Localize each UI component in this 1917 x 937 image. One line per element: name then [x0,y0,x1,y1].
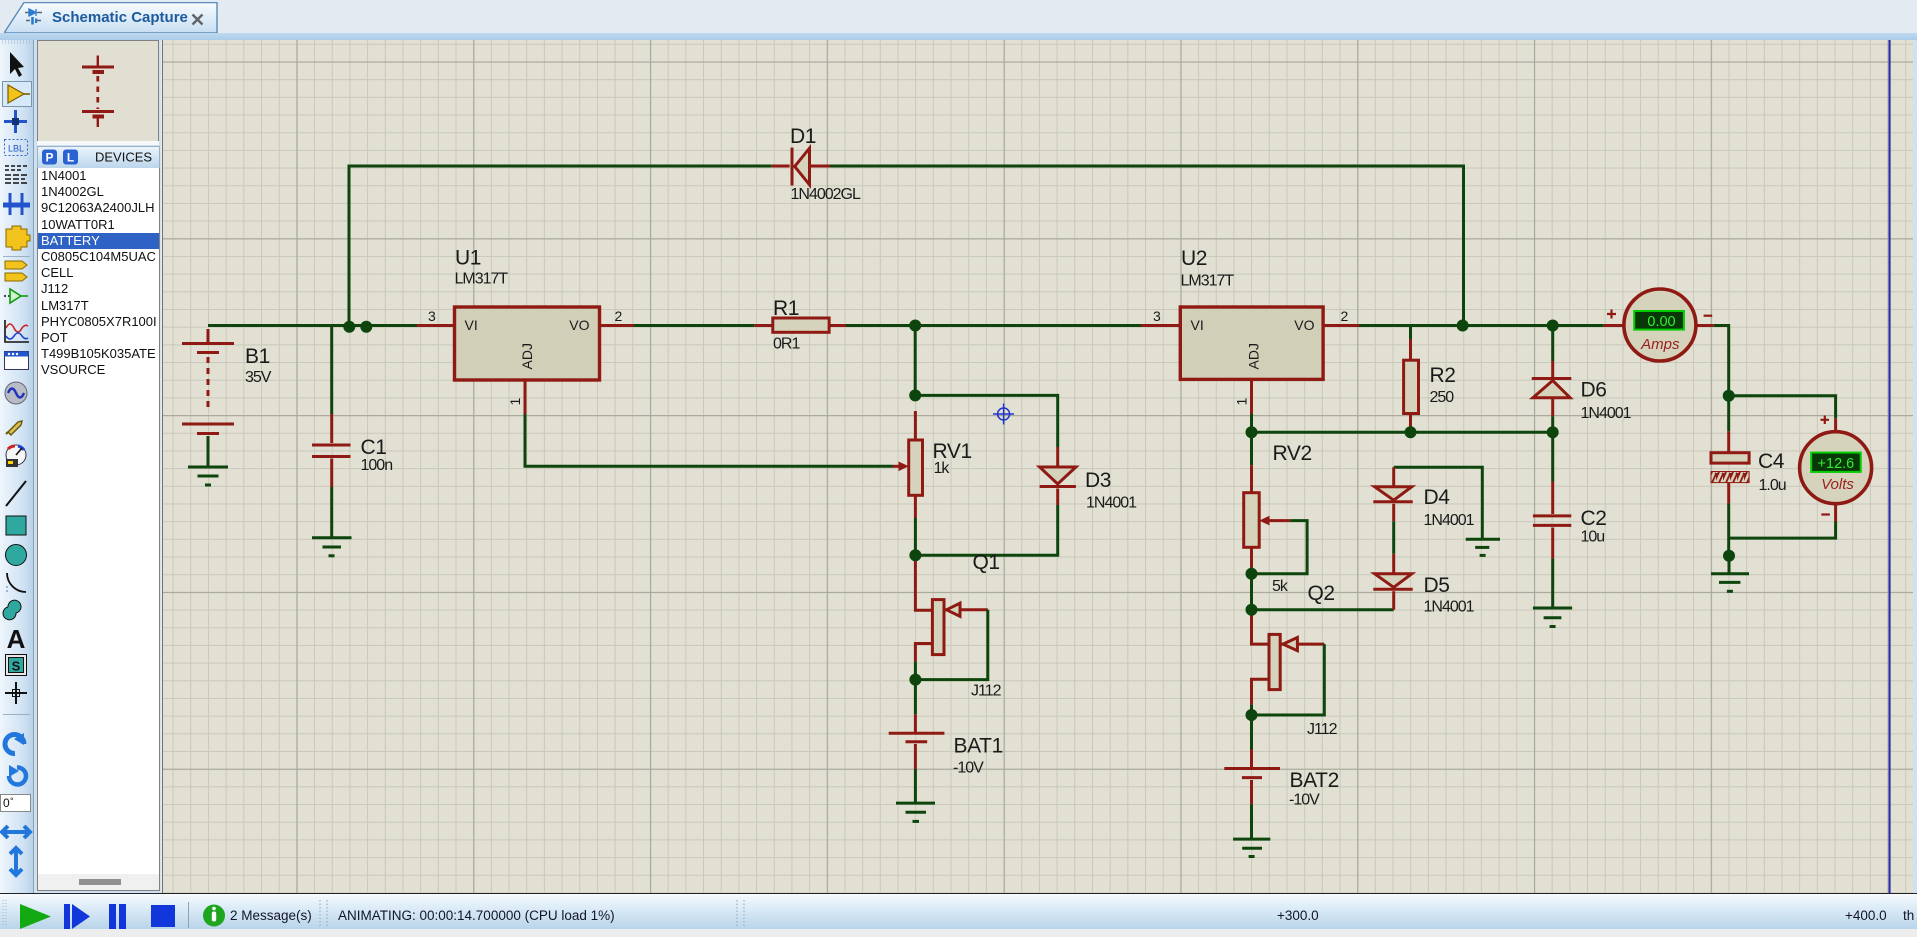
2d box tool [6,516,26,535]
transistor Q1 J112 (JFET) [915,556,987,680]
svg-text:D1: D1 [790,125,816,148]
2d arc tool [7,573,26,592]
svg-text:3: 3 [428,308,436,324]
svg-text:C4: C4 [1758,450,1785,473]
rotate ccw button [9,767,26,784]
svg-text:1N4002GL: 1N4002GL [791,186,861,203]
svg-text:2: 2 [1341,308,1349,324]
junction RV1 top node [909,389,921,401]
svg-text:-10V: -10V [1289,792,1320,809]
divider [3,714,30,716]
bus tool [10,193,22,203]
stop button [151,905,175,927]
battery BAT2 -10V [1224,715,1280,839]
junction RV1 bottom node [909,549,921,561]
junction at B1/D1 node [343,321,355,333]
ground (output) [1711,574,1749,592]
svg-text:DEVICES: DEVICES [95,150,152,165]
play button [20,904,51,929]
svg-text:250: 250 [1430,389,1455,406]
wire: stem to ground [1728,556,1731,574]
step button [64,904,70,929]
resistor R1 0R1 [754,318,846,332]
junction rail to D6 [1547,320,1559,332]
tab close X [191,13,204,31]
svg-text:D5: D5 [1424,574,1450,597]
wire: rail drop to RV1 node [914,326,917,396]
svg-text:1: 1 [507,398,523,406]
svg-text:35V: 35V [245,369,272,386]
svg-text:S: S [12,659,21,674]
diode D5 1N4001 [1373,554,1412,610]
svg-text:0.00: 0.00 [1647,314,1675,330]
wire: U2 VO to ammeter [1359,324,1604,327]
svg-text:Volts: Volts [1821,476,1854,493]
junction Q2 drain node [1246,604,1258,616]
wire: RV2 node down [1250,574,1253,610]
2d closed path tool [3,600,21,620]
ground (B1) [188,467,228,485]
svg-text:P: P [45,151,53,165]
svg-text:+12.6: +12.6 [1818,456,1855,472]
svg-text:VI: VI [1191,317,1204,333]
svg-text:0: 0 [3,796,10,810]
svg-text:B1: B1 [245,345,270,368]
wire: D1 right span and riser to rail [830,166,1464,326]
junction RV2 bottom node [1246,568,1258,580]
svg-text:R2: R2 [1430,364,1456,387]
svg-text:L: L [67,151,74,165]
voltmeter [1800,416,1872,522]
rotation angle box [1,795,31,812]
svg-text:BAT1: BAT1 [954,734,1003,757]
terminal tool [5,261,27,269]
dotted separators [320,900,327,928]
junction U2 ADJ node [1246,426,1258,438]
svg-text:ADJ: ADJ [519,343,535,369]
wire: D1 left riser [349,166,772,327]
junction rail to D1 return [1457,320,1469,332]
svg-text:5k: 5k [1272,578,1289,595]
svg-text:D4: D4 [1424,486,1451,509]
text script tool [5,166,28,183]
tab icon (schematic glyph) [25,8,42,31]
svg-text:1N4001: 1N4001 [1581,405,1632,422]
svg-text:1N4001: 1N4001 [1424,512,1475,529]
junction D6/C2 node [1547,426,1559,438]
2d circle tool [6,545,27,566]
svg-text:J112: J112 [971,683,1002,700]
wire: C1 branch [330,326,333,415]
generator tool [5,382,27,404]
resistor R2 250 [1404,326,1419,433]
svg-text:C1: C1 [361,436,387,459]
graph tool [5,320,29,342]
device pin tool [4,295,10,297]
instruments tool [6,445,26,465]
svg-text:100n: 100n [361,457,393,474]
svg-text:R1: R1 [773,297,799,320]
left toolbar [0,40,34,893]
wire: node to voltmeter top [1729,396,1836,419]
svg-text:ADJ: ADJ [1246,343,1262,369]
svg-text:1N4001: 1N4001 [1424,599,1475,616]
potentiometer RV2 5k [1244,432,1307,574]
wire: U1 VO to R1 [634,324,754,327]
subcircuit tool [6,226,30,250]
wire: D4 top to ground [1394,467,1483,539]
svg-text:Q2: Q2 [1308,582,1335,605]
ground (BAT2) [1233,839,1270,856]
junction R2 bottom node [1405,426,1417,438]
diode D1 1N4002GL [772,148,830,186]
junction Q2 source node [1246,709,1258,721]
junction rail to RV1 branch [909,320,921,332]
svg-text:0R1: 0R1 [773,336,800,353]
h-mirror button [2,826,30,838]
toolbar grip [2,41,31,43]
svg-text:VI: VI [465,317,478,333]
svg-text:U2: U2 [1181,247,1207,270]
ammeter [1604,289,1714,361]
tape recorder tool [5,352,29,370]
capacitor C2 10u [1533,432,1571,608]
regulator U2 LM317T [1141,307,1359,414]
wire: U2 ADJ node row [1252,414,1553,432]
svg-text:D3: D3 [1085,469,1111,492]
sheet border [1889,40,1891,893]
wire: main rail B1 to U1 [208,324,417,327]
svg-text:D6: D6 [1581,379,1607,402]
svg-text:10u: 10u [1581,529,1605,546]
svg-text:Q1: Q1 [973,551,1000,574]
regulator U1 LM317T [417,307,634,414]
selection arrow tool [10,52,24,77]
svg-text:3: 3 [1153,308,1161,324]
junction dot tool [4,110,27,133]
svg-text:C2: C2 [1581,507,1607,530]
rotate cw button [5,735,24,754]
ground (BAT1) [896,803,935,821]
svg-text:-10V: -10V [953,759,984,776]
wire: ammeter out, corner down [1714,326,1729,396]
component tool (selected) [3,82,32,107]
battery B1 [182,329,234,467]
diode D3 1N4001 [1040,447,1076,505]
info icon [203,905,225,927]
svg-text:LM317T: LM317T [455,271,509,288]
wire: node to D5 bottom [1252,608,1394,611]
battery BAT1 -10V [889,680,945,804]
junction on input rail [360,321,372,333]
svg-text:U1: U1 [455,247,481,270]
tab bar [0,0,1917,33]
svg-text:LM317T: LM317T [1181,273,1235,290]
status bar [0,893,1917,930]
ground (C2) [1533,608,1572,627]
origin marker [993,404,1014,425]
svg-text:VO: VO [1294,317,1314,333]
junction output ground node [1723,550,1735,562]
ground (D4) [1466,539,1500,555]
junction output node [1723,390,1735,402]
diode D4 1N4001 [1373,467,1412,554]
svg-text:RV2: RV2 [1273,442,1312,465]
junction Q1 source node [909,674,921,686]
svg-text:2: 2 [615,308,623,324]
svg-text:Amps: Amps [1640,336,1680,353]
capacitor C4 1.0u (polarised) [1711,396,1749,556]
svg-text:1k: 1k [934,460,951,477]
potentiometer RV1 1k [893,411,923,555]
svg-text:1: 1 [1234,398,1250,406]
wire: U1 ADJ to RV1 wiper [525,414,893,466]
svg-text:VO: VO [569,317,589,333]
wire: D3 bottom to RV1 bottom node [915,505,1057,555]
svg-text:BAT2: BAT2 [1290,769,1339,792]
2d line tool [6,481,26,506]
wire: node to D3 top [915,395,1057,447]
diode D6 1N4001 [1532,326,1572,433]
voltage probe tool [8,421,22,435]
svg-text:A: A [7,624,26,654]
2d symbol tool [6,655,27,676]
transistor Q2 J112 (JFET) [1252,611,1325,715]
svg-text:J112: J112 [1307,721,1338,738]
svg-text:°: ° [10,796,14,806]
pause button [109,904,116,929]
divider [3,256,30,258]
wire: R1 to U2 [846,324,1141,327]
side panel [34,40,161,893]
grip dots [3,900,6,926]
svg-text:1.0u: 1.0u [1759,477,1786,494]
2d marker tool [5,682,27,704]
svg-text:LBL: LBL [8,144,24,154]
v-mirror button [10,848,22,875]
svg-text:1N4001: 1N4001 [1086,495,1137,512]
wire label tool [5,140,28,156]
wire: voltmeter bottom to ground rail [1729,522,1836,539]
capacitor C1 [312,414,351,538]
ground (C1) [312,538,352,556]
separator [188,902,190,928]
battery preview symbol [82,56,114,128]
